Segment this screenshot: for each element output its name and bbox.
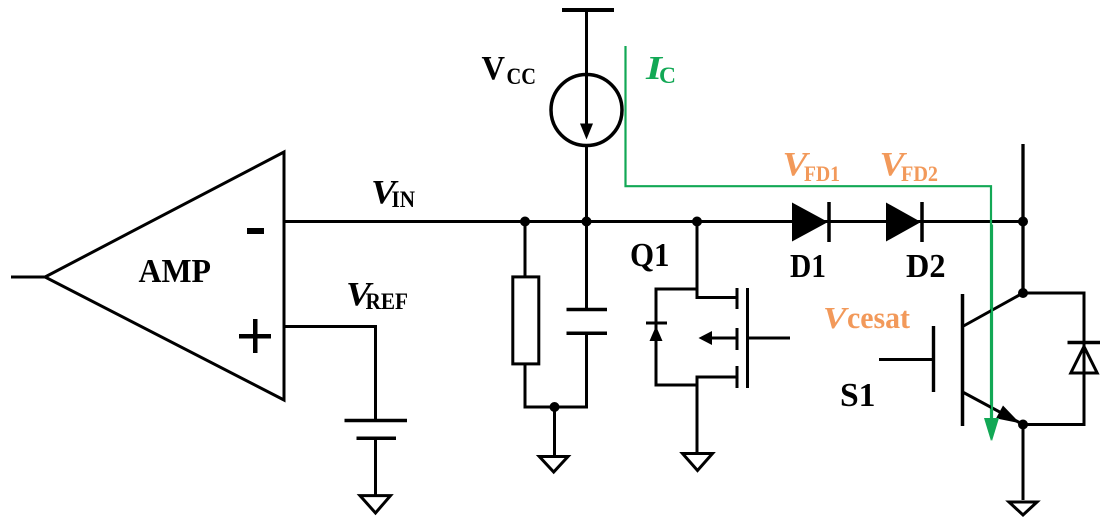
svg-text:S1: S1 [840, 377, 876, 414]
junction node collector rail [1018, 217, 1028, 227]
wire emitter to ground [1022, 425, 1025, 501]
current source I1 circle [551, 75, 622, 146]
diode D2 [886, 203, 921, 242]
current source arrow [580, 124, 593, 140]
mosfet Q1 gate plate [746, 288, 749, 388]
mosfet Q1 body arrow [711, 337, 737, 340]
svg-text:D2: D2 [906, 248, 946, 285]
wire rail to Q1 drain [696, 222, 699, 300]
igbt S1 gate plate [932, 326, 935, 392]
igbt S1 emitter diagonal [964, 393, 1024, 425]
ground under Q1 [683, 454, 713, 471]
wire RC node to ground [553, 407, 556, 456]
svg-text:V: V [823, 300, 849, 335]
body diode bar [646, 322, 667, 325]
igbt S1 emitter arrowhead [996, 406, 1020, 424]
wire battery to ground [374, 438, 377, 496]
svg-text:cesat: cesat [847, 300, 911, 335]
wire rail to current source [585, 11, 588, 124]
green current path I_C [626, 46, 992, 423]
svg-text:Q1: Q1 [630, 237, 670, 274]
svg-text:D1: D1 [790, 248, 826, 285]
svg-text:V: V [482, 50, 506, 87]
op-amp U1 AMP [11, 152, 284, 400]
resistor R1 [513, 277, 539, 364]
power rail Vcc bar [562, 8, 614, 12]
wire rail to resistor [524, 222, 527, 278]
mosfet Q1 drain stub [696, 296, 738, 299]
igbt S1 gate lead [879, 358, 933, 361]
ground under RC [539, 457, 568, 473]
green current path arrowhead [984, 418, 998, 441]
mosfet Q1 body top link [655, 288, 699, 291]
wire bottom node RC [524, 406, 589, 409]
mosfet Q1 channel segments [736, 288, 739, 388]
junction node emitter [1018, 420, 1028, 430]
igbt S1 body bar [961, 294, 965, 426]
svg-text:C: C [659, 63, 676, 89]
wire main V_IN rail [284, 220, 1023, 223]
freewheel diode D3 bar [1068, 341, 1101, 345]
op-amp plus input symbol [239, 319, 271, 353]
wire resistor to bottom node [524, 364, 527, 407]
op-amp minus input symbol [247, 228, 264, 234]
junction node on rail at Q1 [692, 217, 702, 227]
svg-text:FD1: FD1 [804, 161, 840, 186]
svg-text:FD2: FD2 [901, 161, 938, 186]
wire plus input to V_REF branch [284, 327, 376, 421]
svg-text:REF: REF [366, 289, 409, 315]
wire collector top [1021, 144, 1024, 294]
svg-text:CC: CC [507, 64, 537, 90]
igbt S1 collector diagonal [964, 293, 1024, 326]
capacitor C1 [567, 310, 608, 334]
ground under battery [360, 496, 391, 513]
mosfet Q1 source stub [696, 376, 738, 379]
wire current source to main rail and capacitor [585, 145, 588, 309]
diode D1 [792, 203, 828, 242]
svg-text:AMP: AMP [139, 253, 212, 290]
junction node collector [1018, 288, 1028, 298]
mosfet Q1 body branch vertical [655, 289, 658, 385]
ground under igbt [1009, 502, 1037, 515]
mosfet Q1 gate lead [748, 337, 791, 340]
wire capacitor to bottom node [585, 333, 588, 408]
junction node on rail at resistor [520, 217, 530, 227]
battery V_REF source [345, 421, 408, 439]
wire freewheel diode branch [1023, 293, 1084, 425]
body diode arrow [650, 326, 663, 341]
green current path arrowhead [985, 418, 999, 441]
wire Q1 source to ground [696, 377, 699, 452]
freewheel diode D3 triangle [1071, 347, 1097, 374]
junction node RC ground [550, 402, 560, 412]
svg-text:IN: IN [392, 187, 416, 213]
mosfet Q1 body bottom link [655, 384, 699, 387]
junction node on rail at capacitor [582, 217, 592, 227]
green current path lower segment [991, 225, 993, 422]
